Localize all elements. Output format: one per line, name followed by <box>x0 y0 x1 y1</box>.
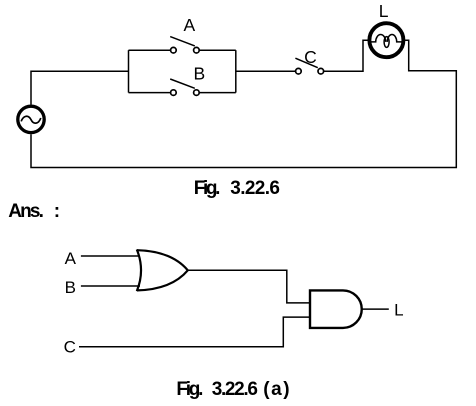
svg-text:Fig.3.22.6(a): Fig.3.22.6(a) <box>176 379 289 400</box>
svg-text:A: A <box>183 15 195 35</box>
svg-text:B: B <box>193 64 205 84</box>
svg-text:C: C <box>304 47 317 67</box>
svg-text:L: L <box>379 1 389 21</box>
svg-text:B: B <box>65 278 76 297</box>
svg-text:L: L <box>394 300 403 319</box>
svg-text:Fig.3.22.6: Fig.3.22.6 <box>194 178 280 199</box>
svg-text:A: A <box>65 249 77 268</box>
svg-text:C: C <box>64 337 76 356</box>
